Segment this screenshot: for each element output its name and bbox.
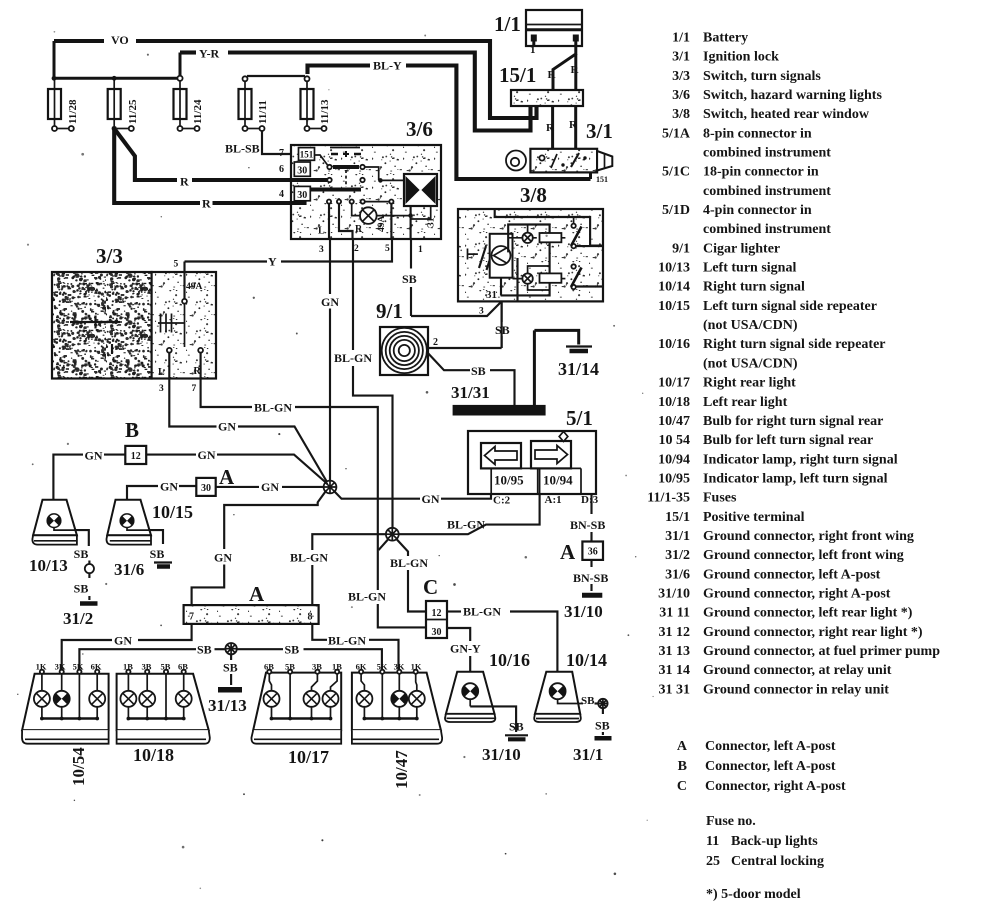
svg-text:3/1: 3/1 — [672, 50, 690, 65]
svg-text:31/1: 31/1 — [573, 745, 603, 764]
svg-text:Right rear light: Right rear light — [703, 376, 796, 391]
svg-text:R: R — [548, 69, 557, 81]
svg-text:3/6: 3/6 — [406, 117, 433, 141]
svg-text:31 11: 31 11 — [659, 606, 690, 621]
svg-text:10/17: 10/17 — [288, 747, 329, 767]
svg-text:49A: 49A — [186, 282, 203, 292]
svg-text:Bulb for right turn signal rea: Bulb for right turn signal rear — [703, 414, 883, 429]
svg-text:L: L — [318, 226, 325, 237]
svg-text:15/1: 15/1 — [499, 63, 536, 87]
svg-text:Y: Y — [268, 255, 277, 269]
svg-text:11/25: 11/25 — [127, 99, 139, 124]
svg-text:31/10: 31/10 — [482, 745, 521, 764]
svg-text:GN: GN — [214, 551, 232, 565]
svg-text:10/18: 10/18 — [133, 745, 174, 765]
svg-text:BL-GN: BL-GN — [290, 551, 328, 565]
svg-text:SB: SB — [197, 643, 212, 657]
svg-text:BL-GN: BL-GN — [334, 351, 372, 365]
svg-text:10/94: 10/94 — [658, 452, 690, 467]
svg-text:10/16: 10/16 — [658, 337, 690, 352]
svg-text:SB: SB — [581, 695, 595, 707]
svg-text:5/1D: 5/1D — [662, 203, 690, 218]
svg-text:SB: SB — [595, 719, 610, 733]
svg-text:5/1A: 5/1A — [662, 126, 691, 141]
svg-text:31/10: 31/10 — [658, 586, 690, 601]
svg-text:A: A — [249, 582, 265, 606]
svg-text:10/15: 10/15 — [658, 299, 690, 314]
svg-text:SB: SB — [285, 643, 300, 657]
svg-text:10/14: 10/14 — [658, 280, 690, 295]
svg-text:1/1: 1/1 — [672, 31, 690, 46]
svg-text:D:3: D:3 — [581, 494, 599, 506]
svg-text:Back-up lights: Back-up lights — [731, 834, 818, 849]
svg-text:BL-SB: BL-SB — [225, 142, 260, 156]
svg-text:combined instrument: combined instrument — [703, 146, 831, 161]
svg-text:Ground connector, left A-post: Ground connector, left A-post — [703, 567, 881, 582]
svg-text:SB: SB — [402, 272, 417, 286]
svg-text:A: A — [219, 465, 235, 489]
svg-text:30: 30 — [201, 483, 211, 494]
svg-text:SB: SB — [223, 661, 238, 675]
svg-text:3/8: 3/8 — [520, 183, 547, 207]
svg-text:C:2: C:2 — [493, 495, 511, 507]
svg-text:5/1: 5/1 — [566, 406, 593, 430]
svg-text:Ground connector, right rear l: Ground connector, right rear light *) — [703, 625, 923, 640]
svg-text:3/1: 3/1 — [586, 119, 613, 143]
svg-text:(not USA/CDN): (not USA/CDN) — [703, 356, 798, 371]
svg-text:BL-GN: BL-GN — [348, 590, 386, 604]
svg-text:A: A — [677, 739, 688, 754]
svg-text:R: R — [180, 175, 189, 189]
svg-text:R: R — [355, 224, 363, 235]
svg-text:1/1: 1/1 — [494, 12, 521, 36]
svg-text:10/18: 10/18 — [658, 395, 690, 410]
svg-text:Left turn signal: Left turn signal — [703, 261, 796, 276]
svg-text:10/15: 10/15 — [152, 502, 193, 522]
svg-text:12: 12 — [131, 451, 141, 462]
svg-text:5/1C: 5/1C — [662, 165, 690, 180]
svg-text:151: 151 — [596, 175, 608, 184]
svg-text:Fuses: Fuses — [703, 491, 737, 506]
svg-text:11/1-35: 11/1-35 — [647, 491, 690, 506]
svg-text:GN: GN — [218, 420, 236, 434]
svg-text:Ground connector in relay unit: Ground connector in relay unit — [703, 682, 889, 697]
svg-text:11: 11 — [706, 834, 719, 849]
svg-text:6: 6 — [279, 164, 284, 175]
svg-text:Y-R: Y-R — [199, 47, 220, 61]
svg-text:31: 31 — [486, 289, 497, 301]
svg-text:BL-GN: BL-GN — [447, 518, 485, 532]
svg-text:GN: GN — [85, 449, 103, 463]
svg-text:Ignition lock: Ignition lock — [703, 50, 779, 65]
svg-text:11/13: 11/13 — [319, 99, 331, 124]
svg-text:L: L — [158, 367, 165, 378]
svg-text:31 13: 31 13 — [659, 644, 691, 659]
svg-text:Ground connector, at fuel prim: Ground connector, at fuel primer pump — [703, 644, 940, 659]
svg-text:B: B — [678, 759, 687, 774]
svg-text:7: 7 — [189, 612, 194, 623]
svg-text:9/1: 9/1 — [376, 299, 403, 323]
svg-text:12: 12 — [432, 608, 442, 619]
svg-text:31 12: 31 12 — [659, 625, 691, 640]
svg-text:R: R — [571, 64, 580, 76]
svg-text:10/14: 10/14 — [566, 650, 607, 670]
svg-text:Ground connector, at relay uni: Ground connector, at relay unit — [703, 663, 892, 678]
svg-text:3/3: 3/3 — [96, 244, 123, 268]
svg-text:31/31: 31/31 — [451, 383, 490, 402]
svg-text:10/13: 10/13 — [29, 556, 68, 575]
svg-text:2: 2 — [354, 244, 359, 254]
svg-text:11/11: 11/11 — [257, 100, 269, 124]
svg-text:36: 36 — [588, 547, 598, 558]
svg-text:*) 5-door model: *) 5-door model — [706, 887, 801, 902]
svg-text:A:1: A:1 — [545, 494, 562, 506]
svg-text:4: 4 — [279, 189, 284, 200]
svg-text:31/13: 31/13 — [208, 696, 247, 715]
svg-text:A: A — [560, 540, 576, 564]
svg-text:BL-Y: BL-Y — [373, 59, 402, 73]
svg-text:GN: GN — [160, 480, 178, 494]
svg-text:10/47: 10/47 — [392, 750, 411, 789]
svg-text:Connector, left A-post: Connector, left A-post — [705, 759, 836, 774]
svg-text:31/2: 31/2 — [665, 548, 690, 563]
svg-text:Ground connector, left front w: Ground connector, left front wing — [703, 548, 904, 563]
svg-text:10/13: 10/13 — [658, 261, 690, 276]
svg-text:GN: GN — [114, 634, 132, 648]
svg-text:30: 30 — [297, 190, 307, 201]
svg-text:8: 8 — [308, 612, 313, 623]
svg-text:31: 31 — [427, 217, 437, 227]
svg-text:Bulb for left turn signal rear: Bulb for left turn signal rear — [703, 433, 873, 448]
svg-text:Right turn signal side repeate: Right turn signal side repeater — [703, 337, 886, 352]
svg-text:GN: GN — [198, 448, 216, 462]
svg-text:GN: GN — [261, 480, 279, 494]
svg-text:VO: VO — [111, 33, 129, 47]
svg-text:Switch, turn signals: Switch, turn signals — [703, 69, 821, 84]
svg-text:Ground connector, left rear li: Ground connector, left rear light *) — [703, 606, 913, 621]
svg-text:Ground connector, right front: Ground connector, right front wing — [703, 529, 914, 544]
svg-text:Battery: Battery — [703, 31, 748, 46]
svg-text:10 54: 10 54 — [659, 433, 691, 448]
svg-text:Central locking: Central locking — [731, 854, 824, 869]
svg-text:3: 3 — [159, 384, 164, 394]
svg-text:Right turn signal: Right turn signal — [703, 280, 805, 295]
svg-text:31/6: 31/6 — [665, 567, 690, 582]
svg-text:31/6: 31/6 — [114, 560, 144, 579]
svg-text:3: 3 — [319, 245, 324, 255]
svg-text:31/10: 31/10 — [564, 602, 603, 621]
svg-text:10/54: 10/54 — [69, 747, 88, 786]
svg-text:SB: SB — [509, 720, 524, 734]
svg-text:Left turn signal side repeater: Left turn signal side repeater — [703, 299, 877, 314]
svg-text:31/14: 31/14 — [558, 359, 599, 379]
svg-text:5: 5 — [174, 260, 179, 270]
svg-text:Left rear light: Left rear light — [703, 395, 788, 410]
svg-text:31 14: 31 14 — [659, 663, 691, 678]
svg-text:Cigar lighter: Cigar lighter — [703, 241, 780, 256]
svg-text:R: R — [546, 122, 555, 134]
svg-text:Positive terminal: Positive terminal — [703, 510, 805, 525]
svg-text:10/95: 10/95 — [494, 473, 524, 488]
svg-text:R: R — [569, 119, 578, 131]
svg-text:R: R — [202, 197, 211, 211]
svg-text:GN: GN — [321, 295, 339, 309]
svg-text:BL-GN: BL-GN — [463, 605, 501, 619]
svg-text:31/1: 31/1 — [665, 529, 690, 544]
svg-text:combined instrument: combined instrument — [703, 222, 831, 237]
svg-text:SB: SB — [471, 364, 486, 378]
svg-text:3/6: 3/6 — [672, 88, 690, 103]
svg-text:7: 7 — [279, 148, 284, 159]
svg-text:Connector, left A-post: Connector, left A-post — [705, 739, 836, 754]
svg-text:31/2: 31/2 — [63, 609, 93, 628]
svg-text:SB: SB — [74, 582, 89, 596]
svg-text:7: 7 — [192, 384, 197, 394]
svg-text:15/1: 15/1 — [665, 510, 690, 525]
svg-text:BL-GN: BL-GN — [390, 556, 428, 570]
svg-text:30: 30 — [432, 627, 442, 638]
svg-text:Fuse no.: Fuse no. — [706, 814, 756, 829]
svg-text:11/28: 11/28 — [67, 99, 79, 124]
svg-text:GN: GN — [422, 492, 440, 506]
svg-text:combined instrument: combined instrument — [703, 184, 831, 199]
svg-text:C: C — [423, 575, 438, 599]
svg-text:11/24: 11/24 — [192, 99, 204, 124]
svg-text:BL-GN: BL-GN — [328, 634, 366, 648]
svg-text:C: C — [677, 779, 687, 794]
svg-text:18-pin connector in: 18-pin connector in — [703, 165, 819, 180]
svg-text:30: 30 — [297, 166, 307, 177]
svg-text:10/95: 10/95 — [658, 471, 690, 486]
svg-text:8-pin connector in: 8-pin connector in — [703, 126, 812, 141]
svg-text:BN-SB: BN-SB — [573, 571, 608, 585]
svg-text:Switch, heated rear window: Switch, heated rear window — [703, 107, 870, 122]
svg-text:31 31: 31 31 — [659, 682, 691, 697]
svg-text:3/8: 3/8 — [672, 107, 690, 122]
svg-text:4-pin connector in: 4-pin connector in — [703, 203, 812, 218]
svg-text:3/3: 3/3 — [672, 69, 690, 84]
svg-text:151: 151 — [300, 150, 314, 160]
svg-text:1: 1 — [418, 245, 423, 255]
svg-text:2: 2 — [433, 337, 438, 348]
svg-text:49A: 49A — [377, 216, 387, 233]
svg-text:GN-Y: GN-Y — [450, 642, 481, 656]
svg-text:Indicator lamp, left turn sign: Indicator lamp, left turn signal — [703, 471, 888, 486]
svg-text:10/47: 10/47 — [658, 414, 690, 429]
svg-text:SB: SB — [150, 547, 165, 561]
svg-text:25: 25 — [706, 854, 720, 869]
svg-text:5: 5 — [385, 244, 390, 254]
svg-text:Ground connector, right A-post: Ground connector, right A-post — [703, 586, 891, 601]
svg-text:3: 3 — [479, 307, 484, 317]
svg-text:10/16: 10/16 — [489, 650, 530, 670]
svg-text:SB: SB — [74, 547, 89, 561]
svg-text:B: B — [125, 418, 139, 442]
svg-text:Switch, hazard warning lights: Switch, hazard warning lights — [703, 88, 882, 103]
svg-text:Connector, right A-post: Connector, right A-post — [705, 779, 846, 794]
svg-text:BN-SB: BN-SB — [570, 518, 605, 532]
svg-text:10/17: 10/17 — [658, 376, 690, 391]
svg-text:Indicator lamp, right turn sig: Indicator lamp, right turn signal — [703, 452, 898, 467]
svg-text:BL-GN: BL-GN — [254, 401, 292, 415]
svg-text:(not USA/CDN): (not USA/CDN) — [703, 318, 798, 333]
svg-text:10/94: 10/94 — [543, 473, 573, 488]
svg-text:9/1: 9/1 — [672, 241, 690, 256]
